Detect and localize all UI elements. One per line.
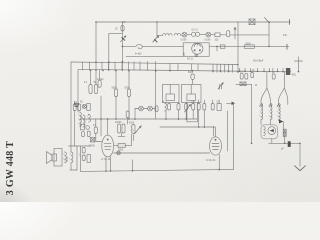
svg-text:4+4μF: 4+4μF <box>97 79 104 81</box>
svg-text:0,05A: 0,05A <box>181 38 187 41</box>
svg-text:5000: 5000 <box>118 150 124 152</box>
svg-text:10000: 10000 <box>115 122 122 124</box>
svg-text:4+4μF: 4+4μF <box>135 54 142 56</box>
svg-text:5000: 5000 <box>188 72 194 74</box>
svg-text:UY 11: UY 11 <box>192 30 199 32</box>
svg-text:40Ω: 40Ω <box>292 75 297 77</box>
svg-text:50+50μF: 50+50μF <box>253 59 264 63</box>
svg-text:3 GW 448 T: 3 GW 448 T <box>5 141 16 195</box>
svg-text:5000: 5000 <box>125 88 131 90</box>
svg-text:U CL 11: U CL 11 <box>101 157 111 161</box>
svg-text:0,05A: 0,05A <box>205 38 211 41</box>
svg-text:U CH 11: U CH 11 <box>206 158 216 162</box>
svg-text:5000: 5000 <box>112 88 118 90</box>
svg-text:5000: 5000 <box>129 123 135 125</box>
svg-text:10000: 10000 <box>89 146 96 148</box>
svg-text:AZ 11: AZ 11 <box>187 58 194 61</box>
svg-text:5000: 5000 <box>246 44 252 46</box>
